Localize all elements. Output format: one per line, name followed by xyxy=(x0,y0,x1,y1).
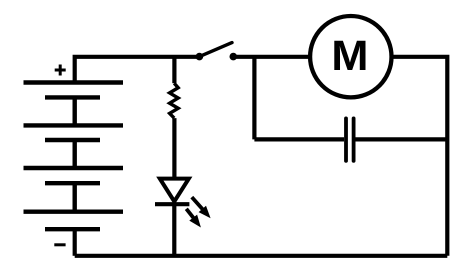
motor circle xyxy=(310,16,391,97)
battery internal stem 3 xyxy=(72,183,76,212)
wire: bottom rail xyxy=(75,254,448,258)
LED emission arrow 1 xyxy=(192,197,211,218)
capacitor C1 xyxy=(346,118,354,160)
battery plate long 3 xyxy=(24,166,124,170)
resistor zigzag body xyxy=(170,83,179,118)
switch lever xyxy=(199,43,232,57)
wire: lead between resistor and LED xyxy=(172,118,176,178)
resistor R1 xyxy=(170,57,179,179)
battery plate short 3 xyxy=(45,181,100,185)
battery internal stem 1 xyxy=(72,97,76,125)
battery plate long 2 xyxy=(24,123,124,127)
capacitor plate right xyxy=(352,118,356,160)
LED triangle (anode) xyxy=(160,179,189,202)
motor label M xyxy=(334,41,365,70)
switch left terminal dot xyxy=(196,53,204,61)
wire: LED bottom lead to bottom rail xyxy=(172,204,176,256)
switch right terminal dot xyxy=(230,53,238,61)
wire: battery positive up and top wire to switch xyxy=(75,57,200,83)
battery plate long 4 xyxy=(24,209,124,213)
battery plus label xyxy=(55,65,66,76)
battery B1 xyxy=(24,83,124,230)
wire: switch right terminal to motor left xyxy=(233,55,310,59)
battery plate short 4 xyxy=(45,227,100,231)
battery minus label xyxy=(54,243,65,246)
battery plate short 2 xyxy=(45,138,100,142)
battery internal stem 2 xyxy=(72,140,76,168)
capacitor plate left xyxy=(344,118,348,160)
wire: capacitor left lead xyxy=(254,137,344,141)
battery plate short 1 xyxy=(45,95,100,99)
motor M1 xyxy=(310,16,391,97)
wire: motor right to top-right corner and down right side xyxy=(391,57,447,256)
switch S1 xyxy=(196,43,238,61)
battery plate long 1 xyxy=(24,80,124,84)
wire: top lead of resistor xyxy=(172,57,176,83)
wire: capacitor right lead xyxy=(356,137,448,141)
wire: capacitor branch vertical from top wire xyxy=(252,57,256,140)
LED D1 xyxy=(155,179,211,256)
wire: battery negative down to bottom rail xyxy=(73,229,77,256)
LED emission arrow 2 xyxy=(186,209,201,228)
LED cathode bar xyxy=(155,202,189,206)
